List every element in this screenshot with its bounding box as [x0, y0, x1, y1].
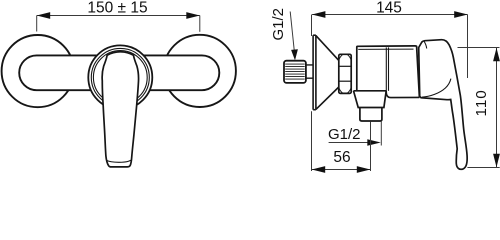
outlet right extension line — [380, 122, 382, 146]
right escutcheon circle — [164, 35, 236, 107]
knurled connection nut — [284, 61, 306, 83]
G1/2 bottom leader arrowhead — [367, 139, 381, 146]
nut stem — [306, 65, 313, 78]
lever bottom seam — [106, 160, 130, 162]
svg-text:G1/2: G1/2 — [270, 8, 287, 41]
dimension 56 line — [312, 111, 371, 171]
svg-text:G1/2: G1/2 — [328, 126, 361, 143]
body top chamfer line — [358, 48, 413, 50]
cartridge bezel inner ring — [93, 51, 147, 105]
dimension 145 arrowheads — [312, 11, 468, 18]
faucet body front view — [19, 55, 219, 90]
svg-text:150 ± 15: 150 ± 15 — [87, 0, 147, 17]
dimension 145 line — [312, 15, 468, 79]
svg-text:145: 145 — [376, 0, 402, 17]
hex nut — [339, 54, 351, 93]
dimension 150±15 arrowheads — [37, 12, 200, 19]
handle cap bottom curve — [422, 79, 451, 98]
dimension 150±15 line — [37, 16, 200, 32]
wall escutcheon cone — [313, 35, 339, 110]
body cartridge seam — [385, 47, 387, 90]
dimension 110 arrowheads — [493, 48, 500, 168]
G1/2 top leader arrowhead — [291, 49, 298, 60]
svg-text:110: 110 — [473, 89, 490, 116]
body underside — [386, 91, 419, 98]
G1/2 bottom leader line — [329, 142, 372, 144]
outlet flange — [354, 91, 387, 108]
handle cap front facet line — [424, 41, 427, 49]
dimension 56 arrowheads — [312, 166, 371, 173]
svg-text:56: 56 — [333, 149, 350, 166]
knurl grooves — [285, 64, 305, 79]
lever handle front view — [102, 52, 138, 167]
outlet pipe G1/2 — [360, 108, 382, 122]
G1/2 top leader line — [290, 12, 294, 51]
handle side view — [419, 40, 467, 170]
cartridge bezel outer ring — [88, 45, 152, 109]
faucet body side view — [354, 46, 420, 98]
cartridge bezel middle ring — [91, 48, 149, 106]
left escutcheon circle — [2, 35, 74, 107]
dimension 110 line — [458, 48, 500, 168]
body bottom edge — [354, 90, 387, 92]
